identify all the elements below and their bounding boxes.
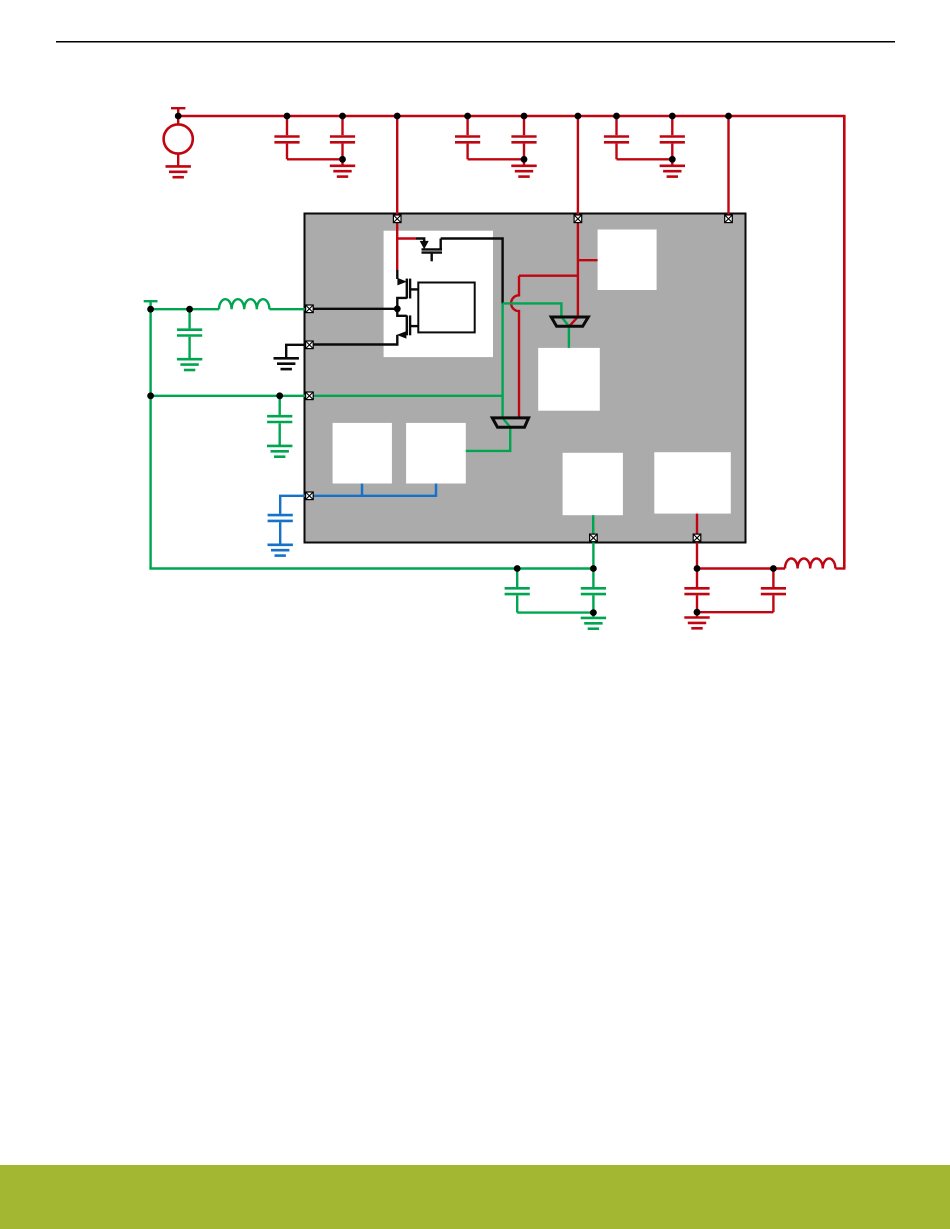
capacitor C6 xyxy=(660,116,685,166)
inductor L1 xyxy=(219,299,269,309)
wire: red branch left xyxy=(519,275,578,277)
ground of V1 xyxy=(166,166,191,177)
ground under C4 xyxy=(511,166,536,177)
pin bottom 1 xyxy=(590,534,598,542)
source V1 terminal xyxy=(171,107,185,109)
wire: red inside from top pin2 to mux1 xyxy=(577,219,579,318)
wire: blue stub block B xyxy=(435,484,437,497)
wire: red inside from top pin1 xyxy=(396,219,398,271)
wire: red diagonal in mux1 xyxy=(569,317,578,326)
block: bottom C xyxy=(563,453,623,515)
block: lower-left B xyxy=(406,423,466,484)
wire: green diagonal in mux1 and output xyxy=(561,317,569,348)
capacitor C10 xyxy=(505,569,594,613)
pin left 1 xyxy=(306,305,314,313)
inductor L2 xyxy=(785,558,835,568)
pin bottom 2 xyxy=(693,534,701,542)
wire: red vertical with hop to mux2 xyxy=(511,276,519,419)
mux2 trapezoid xyxy=(492,418,528,427)
wire: red branch to block2 xyxy=(578,259,598,261)
ground under C6 xyxy=(660,166,685,177)
wire: blue internal bus xyxy=(312,495,436,497)
wire: rail drop to top pin 1 xyxy=(396,116,398,219)
wire: left vertical green xyxy=(149,309,151,568)
capacitor C8 xyxy=(267,396,292,446)
wire: green row to pin VDD xyxy=(151,395,306,397)
wire: VBAT to inductor xyxy=(151,308,219,310)
capacitor C11 xyxy=(581,569,606,618)
wire: red branch to PFET xyxy=(397,237,416,239)
wire: rail drop to top pin 2 xyxy=(577,116,579,219)
control box xyxy=(418,283,474,333)
block: below mux1 xyxy=(538,348,600,411)
ground under C7 xyxy=(177,359,202,370)
wire: green pin drop xyxy=(592,538,594,569)
block: top-right function xyxy=(598,230,657,291)
wire: red stub block D to pin xyxy=(696,514,698,535)
capacitor C9 blue xyxy=(268,515,293,545)
transistor Q3 (low side) xyxy=(312,309,418,345)
capacitor C12 xyxy=(684,569,709,618)
capacitor C4 xyxy=(511,116,536,166)
wire: green vertical to mux2 xyxy=(501,303,503,418)
wire: green mux2 output xyxy=(466,418,510,451)
wire: black top of driver xyxy=(441,239,503,304)
pin top 1 xyxy=(393,215,401,223)
ground under C2 xyxy=(330,166,355,177)
pin top 2 xyxy=(574,215,582,223)
pin top 3 xyxy=(725,215,733,223)
wire: top rail VIN xyxy=(178,115,844,118)
terminal VBAT (green T) xyxy=(144,300,158,302)
wire: SW node to pin xyxy=(312,308,397,310)
capacitor C1 xyxy=(274,116,342,159)
capacitor C2 xyxy=(330,116,355,166)
ground under C8 xyxy=(267,446,292,457)
pin boxes xyxy=(306,215,733,542)
wire: red bottom horizontal xyxy=(697,567,785,569)
ground black at GND pin xyxy=(274,358,299,369)
block: lower-left A xyxy=(333,423,392,484)
wire: inductor to pin DCEN xyxy=(269,308,306,310)
capacitor C7 xyxy=(177,309,202,359)
IC body U1 xyxy=(305,214,746,543)
wire: inductor to right rail xyxy=(835,567,845,569)
source V1 circle xyxy=(164,124,193,153)
wire: red pin drop xyxy=(696,538,698,569)
wire: green net from driver xyxy=(503,303,562,317)
footer bar xyxy=(0,1165,950,1229)
header rule xyxy=(56,41,895,43)
wire: rail drop to top pin 3 xyxy=(727,116,729,219)
wire: pin GND external black xyxy=(286,345,306,359)
wire: blue stub block A xyxy=(361,484,363,496)
block: driver/FET area xyxy=(384,231,493,357)
wire: long green bottom xyxy=(151,567,594,568)
wire: right rail down xyxy=(843,115,846,569)
transistor Q2 (high side) xyxy=(397,279,418,309)
capacitor C13 xyxy=(697,569,786,613)
wire: green pin VDD inside xyxy=(312,395,503,397)
capacitor C3 xyxy=(455,116,524,159)
pin left 3 xyxy=(306,392,314,400)
mux1 trapezoid xyxy=(551,317,588,326)
pin left 2 xyxy=(306,341,314,349)
transistor Q1 (PFET) xyxy=(416,239,442,262)
capacitor C5 xyxy=(604,116,672,159)
wire: green stub block C to pin xyxy=(592,515,594,535)
ground under C11 xyxy=(581,618,606,629)
pin left 4 xyxy=(306,492,314,500)
block: bottom D xyxy=(654,452,731,513)
wire: blue pin external xyxy=(280,496,306,514)
wire: black drop from red xyxy=(396,270,398,279)
ground under C9 xyxy=(268,545,293,556)
ground under C12 xyxy=(684,618,709,629)
